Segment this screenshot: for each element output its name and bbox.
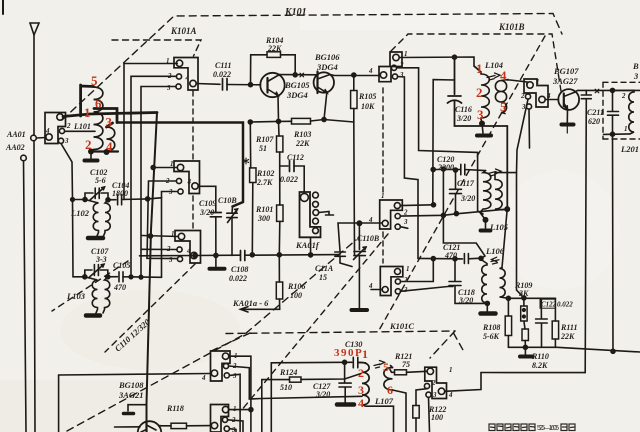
node C110B tap xyxy=(357,221,361,225)
inductor L105 winding2 xyxy=(495,173,517,210)
svg-text:1: 1 xyxy=(624,125,628,133)
switch AA wafer outline xyxy=(45,113,66,144)
svg-text:1800: 1800 xyxy=(112,189,128,198)
svg-text:R110: R110 xyxy=(531,352,549,361)
wire B2 armature to BG107 xyxy=(545,99,558,101)
svg-text:22K: 22K xyxy=(560,332,575,341)
svg-text:B: B xyxy=(632,61,639,71)
node L201 bottom xyxy=(611,132,615,136)
svg-text:1: 1 xyxy=(381,192,385,200)
switch AA contact 2 xyxy=(59,128,64,133)
svg-text:4: 4 xyxy=(201,374,206,382)
inductor L104 winding1 xyxy=(474,66,489,119)
svg-text:100: 100 xyxy=(431,413,443,422)
svg-text:2: 2 xyxy=(399,61,404,69)
wire R104 right to collector node xyxy=(281,55,296,75)
switch AA contact 1 xyxy=(57,114,63,120)
inductor L101 winding 1 xyxy=(92,87,103,152)
switch K101A wafer3 outline xyxy=(175,231,201,264)
inductor L103 winding left xyxy=(73,277,98,313)
wire W1 c2 right down xyxy=(229,366,262,399)
svg-text:0.022: 0.022 xyxy=(557,301,573,309)
connector pin 6 circle xyxy=(300,193,308,201)
svg-text:10K: 10K xyxy=(361,102,375,111)
wire L107 tap4 down xyxy=(363,405,394,432)
inductor L102 winding left xyxy=(85,200,99,237)
wire thick tap1 vertical long to BG108 base xyxy=(147,113,158,422)
resistor R108 xyxy=(507,298,509,316)
svg-text:3/20: 3/20 xyxy=(315,390,330,399)
capacitor C111 xyxy=(223,79,228,91)
switch K101C wafer1 outline xyxy=(380,200,403,229)
svg-text:2: 2 xyxy=(165,177,170,185)
wire w1 contact2 left and down xyxy=(131,76,176,276)
wire AGC rail middle xyxy=(245,254,340,257)
wire vertical C120 to L106 top xyxy=(443,169,485,259)
node BG105 base xyxy=(249,83,253,87)
svg-text:4: 4 xyxy=(185,74,190,82)
capacitor C121 xyxy=(479,256,483,260)
ground BG108 xyxy=(124,412,134,416)
svg-text:1: 1 xyxy=(166,57,170,65)
core arrow L107 xyxy=(374,361,385,369)
svg-text:15: 15 xyxy=(319,273,327,282)
resistor R107 xyxy=(277,136,283,152)
capacitor C105 xyxy=(108,276,118,278)
dashed diagonal wafer C1 to bottom xyxy=(240,234,388,412)
wire C111 to BG105 base xyxy=(227,84,261,86)
inductor L105 winding1 xyxy=(480,171,491,220)
ground L101 xyxy=(85,159,98,163)
inductor L107 winding2 xyxy=(384,368,393,391)
wire B2 c3 stub xyxy=(528,109,531,148)
svg-text:5: 5 xyxy=(91,73,98,88)
core arrow L106 xyxy=(491,257,499,264)
wire emitter rail xyxy=(250,120,353,123)
svg-text:3K: 3K xyxy=(518,289,529,298)
wire to A2 contact3 xyxy=(148,198,162,277)
connector pins 5..1 xyxy=(313,192,319,198)
svg-text:3: 3 xyxy=(168,188,173,196)
svg-text:3: 3 xyxy=(106,115,113,130)
connector KA01f box xyxy=(300,192,321,237)
svg-text:2: 2 xyxy=(476,85,483,100)
bottom note glyph boxes xyxy=(489,424,495,431)
wire C1 c1 to right xyxy=(400,204,433,207)
svg-text:3/20: 3/20 xyxy=(460,194,475,203)
switch K101A w1 armature 4 xyxy=(190,80,196,86)
resistor R101 xyxy=(277,205,283,221)
svg-text:6: 6 xyxy=(95,96,102,111)
svg-text:L101: L101 xyxy=(73,122,91,131)
wire AA02 down xyxy=(24,161,27,432)
K101B dashed diagonal long xyxy=(378,36,545,332)
wire W1 c3 right down xyxy=(229,374,240,432)
trimmer C110B xyxy=(354,223,366,308)
svg-text:2: 2 xyxy=(403,276,408,284)
svg-text:2: 2 xyxy=(232,362,237,370)
svg-text:3: 3 xyxy=(64,137,69,145)
svg-text:3: 3 xyxy=(232,372,237,380)
wire BG105 emitter down xyxy=(277,96,280,122)
svg-text:1: 1 xyxy=(406,265,410,273)
node L102 right xyxy=(106,198,110,202)
node R108 top xyxy=(506,296,510,300)
svg-text:3: 3 xyxy=(477,107,484,122)
node emitter rail left xyxy=(248,120,252,124)
svg-text:R124: R124 xyxy=(279,368,297,377)
svg-text:3: 3 xyxy=(633,71,639,81)
switch K101A w1 contact1 xyxy=(176,60,182,66)
resistor R124 xyxy=(262,379,290,381)
svg-text:3: 3 xyxy=(358,383,364,397)
capacitor C114 fixed xyxy=(335,252,352,267)
wire w1 contact1 left and down xyxy=(124,64,177,200)
svg-text:K101: K101 xyxy=(284,7,307,18)
svg-text:C105: C105 xyxy=(113,261,130,270)
wire R109 rail xyxy=(508,297,555,299)
node C118 top xyxy=(453,257,457,261)
resistor R102 xyxy=(250,168,256,183)
svg-text:390P: 390P xyxy=(334,347,363,359)
svg-text:R111: R111 xyxy=(560,323,577,332)
svg-text:0.022: 0.022 xyxy=(280,175,298,184)
wire C1 c2 to C117 and L105 xyxy=(400,209,507,216)
wire AA contact3 down to L102 L103 xyxy=(61,144,73,277)
svg-text:51: 51 xyxy=(259,144,267,153)
switch K101A wafer2 outline xyxy=(174,161,200,194)
wire BG106 emitter down xyxy=(324,93,327,120)
K101A inner dashed boundary xyxy=(112,40,201,56)
wire W2 c3 right xyxy=(229,429,236,432)
switch K101A w1 contact2 xyxy=(176,74,181,79)
C110 gang dashed link line xyxy=(67,240,356,431)
svg-text:620: 620 xyxy=(588,117,600,126)
svg-text:8.2K: 8.2K xyxy=(532,361,548,370)
svg-text:2: 2 xyxy=(66,122,71,130)
svg-text:3: 3 xyxy=(403,218,408,226)
ground R110 xyxy=(524,347,526,354)
wire L101 bottoms xyxy=(91,150,118,152)
wire w1 contact3 left and down xyxy=(141,87,176,278)
svg-text:4: 4 xyxy=(45,127,50,135)
svg-text:3-3: 3-3 xyxy=(95,255,107,264)
svg-text:2: 2 xyxy=(85,137,92,152)
ground L105 xyxy=(481,229,491,233)
wire L101 tap3 long thick to C10B xyxy=(117,123,243,207)
svg-text:4: 4 xyxy=(186,247,191,255)
wire bus bottom right xyxy=(59,374,210,376)
red overlay numbers xyxy=(84,61,507,154)
svg-text:4: 4 xyxy=(546,92,551,100)
node A2 armature on AGC xyxy=(193,254,197,258)
wire bus verticals bottom left xyxy=(58,375,60,432)
svg-text:3DG4: 3DG4 xyxy=(286,90,308,100)
resistor R118 xyxy=(161,425,171,427)
wire L104 tap4 to B2 c1 xyxy=(507,80,527,85)
svg-text:75: 75 xyxy=(402,360,410,369)
svg-text:2.7K: 2.7K xyxy=(256,178,273,187)
svg-text:C109: C109 xyxy=(199,199,216,208)
svg-text:3: 3 xyxy=(399,71,404,79)
capacitor C211 xyxy=(581,90,591,372)
wire antenna down xyxy=(34,35,35,432)
wire AA contact2 to L101 coil2 xyxy=(65,130,96,132)
svg-text:470: 470 xyxy=(444,251,457,260)
resistor R105 xyxy=(353,75,355,91)
asterisk junction mark xyxy=(243,158,248,164)
wire AGC rail left segment xyxy=(195,254,240,256)
inductor L104 winding2 xyxy=(495,80,508,114)
svg-text:L107: L107 xyxy=(374,396,394,406)
inductor L103 winding right xyxy=(103,277,110,313)
svg-text:BG106: BG106 xyxy=(314,52,340,62)
K101B dashed tent xyxy=(391,34,561,91)
ground L104 xyxy=(477,134,491,138)
ground C109 xyxy=(210,267,225,271)
svg-text:3: 3 xyxy=(521,103,526,111)
wire R102 to AGC rail xyxy=(251,183,254,255)
switch K101A w1 contact3 xyxy=(176,84,181,89)
svg-text:4: 4 xyxy=(368,282,373,290)
svg-text:1: 1 xyxy=(171,230,175,238)
svg-text:2: 2 xyxy=(431,379,436,387)
node L101 coil2 bottom junction xyxy=(104,150,108,154)
wire B1 c2 to C120 vertical xyxy=(397,68,483,214)
switch K101D wafer outline xyxy=(425,367,447,398)
svg-text:R107: R107 xyxy=(255,135,274,144)
svg-text:0.022: 0.022 xyxy=(213,70,231,79)
L201 shield dashed box xyxy=(603,82,640,139)
ground L102 xyxy=(88,236,103,241)
capacitor C117 xyxy=(450,170,462,214)
wire L107 tap3 horizontal xyxy=(262,396,362,398)
wire B1 c1 to L104 xyxy=(399,57,481,72)
wire C2 c2 to C118 xyxy=(401,259,434,282)
junction x mark xyxy=(300,73,304,77)
wire top-left corner tick xyxy=(2,0,4,14)
inductor L101 tap6 wire thick xyxy=(94,109,117,128)
svg-text:R106: R106 xyxy=(287,282,305,291)
wire BG108 collector top xyxy=(128,405,147,422)
transistor BG107 xyxy=(558,89,579,110)
svg-text:C11A: C11A xyxy=(315,264,334,273)
inductor L102 winding right xyxy=(104,200,111,236)
capacitor C108 xyxy=(241,251,245,261)
svg-text:3/20: 3/20 xyxy=(456,114,471,123)
switch AA contact 3 xyxy=(58,138,63,143)
svg-text:C112: C112 xyxy=(287,153,304,162)
svg-text:1: 1 xyxy=(362,347,368,361)
svg-text:2: 2 xyxy=(621,92,626,100)
arrow KA01a-6 head xyxy=(241,307,249,312)
thermistor R109 chain xyxy=(523,298,525,306)
svg-text:22K: 22K xyxy=(267,44,282,53)
resistor R122 xyxy=(413,406,419,419)
svg-text:BG108: BG108 xyxy=(118,380,144,390)
svg-text:300: 300 xyxy=(257,214,270,223)
node C130 left xyxy=(343,360,347,364)
svg-text:510: 510 xyxy=(280,383,292,392)
wire L107 tap5 to R121 xyxy=(390,366,395,373)
switch K101C wafer2 outline xyxy=(380,267,403,296)
node AGC C108 area dots xyxy=(250,253,254,257)
wire R102 branch down xyxy=(249,122,251,168)
wire R106 chain xyxy=(278,255,280,282)
wire L101 to ground xyxy=(90,152,92,159)
ground C110B xyxy=(352,308,368,312)
capacitor L201 inner xyxy=(608,90,619,134)
switch K101C-left wafer1 outline xyxy=(211,351,231,381)
svg-text:C117: C117 xyxy=(457,179,475,188)
svg-text:1: 1 xyxy=(449,366,453,374)
svg-text:4: 4 xyxy=(368,67,373,75)
core arrow L104 xyxy=(487,73,500,80)
transistor BG105 xyxy=(260,73,284,97)
bottom rail xyxy=(508,347,640,352)
svg-text:5: 5 xyxy=(500,99,507,114)
wire BG106 collector up right xyxy=(330,75,380,76)
wire L201 down long xyxy=(612,134,615,351)
svg-text:2200: 2200 xyxy=(437,163,454,172)
wire L104 ground stem xyxy=(481,119,483,133)
wire R107 R101 chain xyxy=(278,121,281,136)
switch K101C-left wafer2 outline xyxy=(211,405,229,432)
wire A3 c1 left xyxy=(142,236,179,237)
wire AA contact1 to L101 tap area thick xyxy=(63,113,157,117)
svg-text:R105: R105 xyxy=(358,92,376,101)
resistor R111 xyxy=(554,298,556,321)
node L105 bottom junction xyxy=(483,218,487,222)
inductor L106 winding2 xyxy=(500,268,509,299)
svg-text:2: 2 xyxy=(520,92,525,100)
K101C wafer dashed axis xyxy=(382,232,384,263)
K101C dashed tent bottom xyxy=(209,331,463,358)
wire AGC rail right segment xyxy=(418,257,460,259)
svg-text:R103: R103 xyxy=(293,130,311,139)
wire BG108 base from bus xyxy=(115,426,141,428)
wire C1 c3 stub xyxy=(400,227,408,229)
svg-text:2: 2 xyxy=(231,416,236,424)
svg-text:3: 3 xyxy=(168,256,173,264)
svg-text:C10B: C10B xyxy=(218,196,237,205)
wire w1 armature to C111 xyxy=(196,83,220,86)
svg-text:BG105: BG105 xyxy=(284,80,310,90)
svg-text:3: 3 xyxy=(231,426,236,432)
transistor BG108 xyxy=(138,421,162,432)
node R110 bottom xyxy=(523,345,527,349)
node AA02 open circle xyxy=(21,155,27,161)
svg-text:1: 1 xyxy=(170,160,174,168)
node R105 top xyxy=(352,73,356,77)
K101A wafer dashed axis lower xyxy=(192,196,194,228)
svg-text:3AG27: 3AG27 xyxy=(552,76,578,86)
svg-text:L102: L102 xyxy=(70,208,90,218)
svg-text:3AG21: 3AG21 xyxy=(118,390,144,400)
svg-text:L103: L103 xyxy=(66,291,86,301)
wire bus right segment xyxy=(481,372,585,374)
svg-text:KA01a - 6: KA01a - 6 xyxy=(232,298,269,308)
switch K101B wafer2 outline xyxy=(524,79,548,107)
svg-text:C211: C211 xyxy=(587,108,604,117)
svg-text:1: 1 xyxy=(234,352,238,360)
svg-text:4: 4 xyxy=(500,68,507,83)
resistor R121 xyxy=(395,370,407,375)
wire A2 c1 left xyxy=(153,167,177,169)
node L106 bottom xyxy=(485,301,489,305)
svg-text:R101: R101 xyxy=(255,205,273,214)
wire A3 c2 left xyxy=(141,248,177,250)
node L101 bottom junction xyxy=(89,149,93,153)
capacitor C116 xyxy=(448,57,508,209)
node BG105 emitter junction xyxy=(277,119,281,123)
capacitor C122 xyxy=(536,298,548,347)
wire D c2 down R122 xyxy=(416,389,427,406)
K101A wafer dashed axis upper xyxy=(192,91,194,160)
wire L107 tap6 down xyxy=(393,390,407,432)
node L103 left xyxy=(83,275,87,279)
bottom Chinese note xyxy=(489,424,575,431)
ground C127 xyxy=(337,402,354,407)
svg-text:C116: C116 xyxy=(455,105,472,114)
svg-text:470: 470 xyxy=(113,283,126,292)
wire L107 tap2 from R124 xyxy=(301,374,361,380)
antenna xyxy=(30,23,39,35)
svg-text:L105: L105 xyxy=(489,222,509,232)
svg-text:5-6K: 5-6K xyxy=(483,332,500,341)
svg-text:100: 100 xyxy=(290,291,302,300)
wire BG108 emitter right xyxy=(159,425,163,427)
svg-text:R102: R102 xyxy=(256,169,274,178)
switch AA armature 4 xyxy=(46,134,52,140)
resistor R104 xyxy=(267,52,281,58)
svg-text:KA01f: KA01f xyxy=(295,240,320,250)
inductor L106 winding1 xyxy=(481,260,487,304)
dashed diagonal from K101A lower wafer to bottom left xyxy=(105,264,195,352)
svg-text:3DG4: 3DG4 xyxy=(316,62,338,72)
node c wire end xyxy=(432,203,436,207)
wire riser to C130 xyxy=(271,362,344,432)
wire BG107 collector xyxy=(575,90,640,92)
wire R104 left leg xyxy=(251,55,268,85)
capacitor C118 xyxy=(449,259,487,304)
capacitor C104 xyxy=(108,199,116,201)
capacitor C120 xyxy=(433,164,485,174)
wire W2 c1 right xyxy=(229,409,251,411)
svg-text:6: 6 xyxy=(387,383,393,397)
capacitor C109 xyxy=(210,213,221,217)
wire L201 bottom xyxy=(604,133,631,136)
K101 dashed boundary tent top xyxy=(62,14,562,121)
node rail L201 xyxy=(611,349,615,353)
svg-text:L201: L201 xyxy=(620,144,639,154)
core arrow L105 xyxy=(488,169,501,176)
svg-text:R118: R118 xyxy=(166,404,184,413)
wire A2 c2 left down xyxy=(147,181,177,259)
wire L105 w2 to L106 w2 xyxy=(502,209,507,268)
K101B wafer dashed axis xyxy=(382,88,384,195)
node AA01 open circle xyxy=(31,135,37,141)
node C116 top xyxy=(433,80,455,205)
wire W2 c2 right down xyxy=(228,420,243,432)
svg-text:C122: C122 xyxy=(541,301,557,309)
ground L103 xyxy=(86,313,100,318)
wire L106 ground xyxy=(486,303,488,311)
svg-text:3: 3 xyxy=(166,84,171,92)
node L102 left xyxy=(83,198,87,202)
wire K101C armature to tuning caps xyxy=(338,223,382,251)
svg-text:0.022: 0.022 xyxy=(229,274,247,283)
